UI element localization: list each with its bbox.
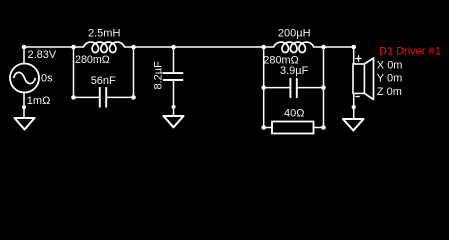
node section2 top-left (261, 45, 266, 50)
driver D1 cone (364, 58, 373, 100)
svg-text:Y 0m: Y 0m (377, 73, 402, 85)
driver minus terminal (355, 96, 359, 98)
wire section2 right branch (323, 47, 325, 128)
wire resistor right lead (314, 127, 324, 129)
svg-text:40Ω: 40Ω (284, 107, 304, 119)
wire section2 left branch (263, 47, 265, 128)
resistor R1 40ohm body (272, 122, 314, 134)
inductor L2 200uH coil (274, 42, 314, 52)
node cap C2 top (171, 45, 176, 50)
node cap C3 left (261, 85, 266, 90)
ground source (15, 118, 35, 130)
wire top rail left (24, 46, 84, 48)
svg-text:0s: 0s (41, 73, 53, 85)
node section1 bottom-right (131, 95, 136, 100)
node resistor left (261, 125, 266, 130)
node resistor right (321, 125, 326, 130)
node section1 top-right (131, 45, 136, 50)
wire cap C3 left lead (264, 87, 290, 89)
node section1 bottom-left (71, 95, 76, 100)
capacitor C1 56nF plates (100, 87, 106, 108)
node cap C2 ground (171, 105, 175, 109)
node section1 top-left (71, 45, 76, 50)
svg-text:D1 Driver #1: D1 Driver #1 (379, 45, 441, 57)
wire cap C1 left lead (74, 96, 100, 98)
svg-text:2.5mH: 2.5mH (88, 28, 120, 40)
wire cap C2 top lead (173, 47, 175, 73)
svg-text:3.9µF: 3.9µF (280, 65, 309, 77)
svg-text:56nF: 56nF (91, 75, 116, 87)
inductor L1 2.5mH coil (84, 42, 125, 52)
capacitor C3 3.9uF plates (290, 78, 296, 98)
node source ground (22, 105, 26, 109)
wire driver top (353, 47, 355, 64)
svg-text:280mΩ: 280mΩ (75, 54, 110, 66)
wire top rail mid (125, 46, 274, 48)
svg-text:Z 0m: Z 0m (377, 86, 402, 98)
driver D1 magnet rect (353, 64, 364, 93)
ground driver (343, 119, 364, 131)
capacitor C2 8.2uF plates (163, 73, 183, 80)
wire source bottom (23, 93, 25, 118)
driver plus terminal (355, 55, 361, 61)
wire cap C2 bottom lead (173, 81, 175, 116)
svg-text:8.2µF: 8.2µF (153, 61, 165, 90)
node dots (22, 45, 356, 130)
wire top rail right (314, 46, 354, 48)
svg-text:X 0m: X 0m (377, 59, 403, 71)
node section2 top-right (321, 45, 326, 50)
wire cap C1 right lead (107, 96, 134, 98)
ground cap C2 (164, 116, 184, 127)
node source top (22, 45, 27, 50)
node driver top (351, 45, 356, 50)
node driver ground (352, 105, 356, 109)
wire source top (23, 47, 25, 64)
wire section1 right branch (133, 47, 135, 97)
svg-text:200µH: 200µH (278, 28, 311, 40)
wire resistor left lead (264, 127, 272, 129)
wire driver bottom (353, 94, 355, 119)
svg-text:1mΩ: 1mΩ (27, 95, 51, 107)
node cap C3 right (321, 85, 326, 90)
voltage source sine wave (14, 72, 36, 83)
wire section1 left branch (73, 47, 75, 97)
svg-text:2.83V: 2.83V (28, 49, 57, 61)
voltage source V1 circle (10, 64, 39, 93)
wire cap C3 right lead (298, 87, 324, 89)
